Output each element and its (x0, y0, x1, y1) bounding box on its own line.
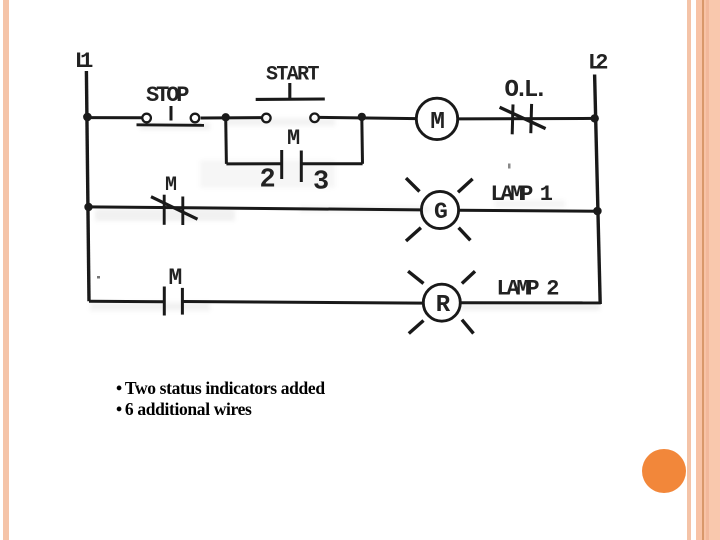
svg-text:M: M (169, 265, 183, 291)
svg-text:M: M (165, 174, 177, 197)
svg-text:M: M (430, 109, 445, 136)
svg-text:STOP: STOP (146, 83, 190, 108)
svg-text:M: M (287, 126, 300, 151)
svg-text:LAMP 2: LAMP 2 (497, 277, 560, 302)
svg-text:R: R (436, 292, 451, 319)
svg-text:O.L.: O.L. (505, 77, 549, 104)
svg-text:LAMP 1: LAMP 1 (491, 182, 554, 207)
svg-text:L2: L2 (588, 50, 609, 75)
svg-text:START: START (266, 64, 320, 87)
svg-text:3: 3 (313, 168, 329, 198)
svg-text:2: 2 (260, 165, 276, 195)
svg-text:G: G (434, 199, 448, 225)
svg-text:L1: L1 (75, 49, 94, 74)
